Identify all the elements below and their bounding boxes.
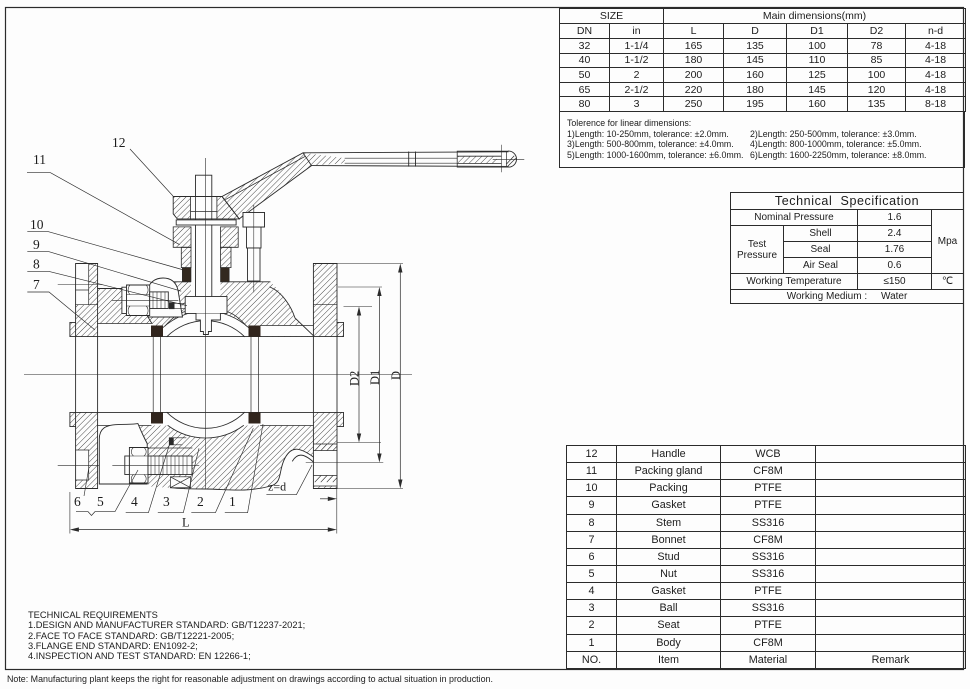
gland bolt, right bbox=[243, 213, 265, 282]
right flange lower hatched bbox=[313, 412, 343, 488]
stem tang bbox=[196, 314, 220, 335]
leader 6 (stud) bbox=[76, 470, 138, 516]
stem channel white bbox=[191, 219, 221, 297]
technical specification table bbox=[730, 192, 964, 304]
lower body lug (viewed) bbox=[99, 424, 147, 484]
retainer with cross (X) below stud bbox=[170, 477, 190, 488]
upper joint gasket, item 9 (black) bbox=[169, 302, 175, 309]
raised face mini dimension bbox=[320, 498, 335, 500]
svg-text:2: 2 bbox=[197, 494, 204, 509]
left flange lower hatched bbox=[70, 412, 98, 488]
upper stud, item 6 bbox=[122, 285, 168, 316]
svg-text:9: 9 bbox=[33, 237, 40, 252]
lower body mass hatched bbox=[138, 426, 314, 491]
rounded grip end bbox=[509, 151, 517, 167]
lower stud, item 6 bbox=[148, 456, 192, 475]
body cavity arc lower bbox=[168, 426, 244, 438]
right flange outline bbox=[313, 264, 343, 489]
svg-text:6: 6 bbox=[74, 494, 81, 509]
left flange hole centerlines bbox=[58, 285, 383, 466]
grip hatch bbox=[458, 156, 497, 163]
dimension L bbox=[70, 489, 337, 534]
lower washer bbox=[125, 456, 130, 475]
upper stud centerline bbox=[112, 299, 178, 301]
left flange bolt hole lines bbox=[76, 264, 98, 481]
leader 1 (body) bbox=[225, 424, 263, 513]
leader 2 (seat) bbox=[191, 428, 253, 513]
gland bolt head redraw (in front of handle arm) bbox=[243, 213, 265, 228]
svg-text:z=d: z=d bbox=[268, 480, 286, 494]
parts list table bbox=[566, 445, 966, 669]
ball top arc bbox=[167, 321, 244, 337]
seat pocket white bands bbox=[98, 324, 151, 336]
bottom note bbox=[7, 674, 493, 684]
lower nut, item 5 bbox=[129, 448, 148, 484]
seat ring sections (black squares), item 2 bbox=[151, 326, 163, 337]
dimension D bbox=[399, 266, 401, 486]
right flange detail lines / z=d hole bbox=[313, 305, 337, 486]
lower joint gasket, item 4 (black) bbox=[169, 437, 174, 445]
gland followers hatched bbox=[173, 227, 238, 268]
svg-text:10: 10 bbox=[30, 217, 44, 232]
svg-text:12: 12 bbox=[112, 135, 126, 150]
main dimensions table bbox=[559, 8, 966, 112]
dimension D2 bbox=[358, 309, 360, 440]
seat rings: vertical bore lines bbox=[153, 337, 258, 413]
stem, item 8 bbox=[185, 175, 227, 334]
grip sleeve bbox=[457, 151, 508, 167]
lower left neck band hatched bbox=[98, 425, 138, 428]
grip cap shading bbox=[507, 152, 516, 166]
bar tick marks bbox=[409, 152, 416, 166]
bar inner lines bbox=[345, 158, 457, 163]
svg-text:11: 11 bbox=[33, 152, 46, 167]
svg-text:1: 1 bbox=[229, 494, 236, 509]
extension lines right bbox=[337, 264, 403, 489]
horizontal pipe centerline bbox=[24, 374, 412, 376]
seat pocket lines bbox=[98, 324, 314, 426]
stem collar bbox=[185, 297, 227, 314]
body cavity arc upper bbox=[163, 311, 248, 328]
upper central body and bonnet mass hatched bbox=[131, 282, 313, 337]
handle bar horizontal bbox=[303, 151, 517, 167]
packing rings, item 10 (dark) bbox=[182, 268, 191, 282]
svg-text:8: 8 bbox=[33, 257, 40, 272]
bore lines bbox=[76, 337, 337, 413]
upper left body neck hatched bbox=[98, 289, 152, 324]
packing gland plate, item 11 bbox=[176, 220, 236, 225]
tolerance note box bbox=[559, 111, 965, 168]
body outline strokes bbox=[70, 264, 344, 491]
handle lever arm (diagonal) hatched bbox=[222, 153, 312, 219]
handle head hatched bbox=[173, 197, 239, 219]
body cap joint line above stud bbox=[148, 447, 192, 449]
right flange upper hatched bbox=[313, 264, 343, 337]
svg-text:D1: D1 bbox=[368, 370, 382, 385]
ball bottom arc bbox=[167, 412, 244, 428]
left flange outline bbox=[70, 264, 98, 489]
head slot white bbox=[191, 197, 217, 218]
svg-text:4: 4 bbox=[131, 494, 138, 509]
svg-text:L: L bbox=[182, 516, 190, 530]
bonnet neck bbox=[181, 247, 191, 267]
lower body profile bbox=[138, 426, 314, 491]
lower bolt centerline bbox=[113, 464, 199, 466]
svg-text:D2: D2 bbox=[348, 371, 362, 386]
stem shaft bbox=[196, 219, 212, 297]
upper body profile bbox=[98, 282, 314, 336]
svg-text:D: D bbox=[389, 371, 403, 380]
leader 4 (gasket) bbox=[126, 440, 171, 513]
svg-text:3: 3 bbox=[163, 494, 170, 509]
leader 3 (ball) bbox=[158, 448, 199, 512]
dimension D1 bbox=[378, 290, 380, 461]
left flange upper hatched (bonnet cap flange) bbox=[70, 264, 98, 337]
svg-text:5: 5 bbox=[97, 494, 104, 509]
body inner wall near stem collar bbox=[165, 312, 246, 327]
grip hole centerline cross bbox=[493, 145, 524, 172]
vertical stem centerline bbox=[205, 158, 207, 489]
upper body lug (viewed, unsectioned) bbox=[148, 278, 183, 317]
svg-text:7: 7 bbox=[33, 277, 40, 292]
bend wedge hatched bbox=[303, 153, 345, 166]
stem top bbox=[196, 175, 212, 196]
technical requirements text bbox=[28, 610, 305, 661]
